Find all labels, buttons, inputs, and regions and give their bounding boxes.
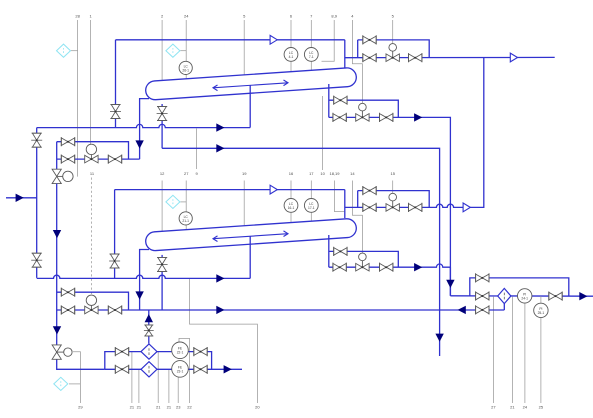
signal line tag 29 [73, 352, 80, 403]
pipe E1 bypass riser [115, 40, 117, 128]
signal line tag 23 [177, 377, 179, 403]
level controller LC 7-1 [304, 48, 318, 62]
signal line tag 21e [511, 297, 513, 403]
pipe unit1 overhead [116, 39, 345, 41]
strainer product [498, 288, 511, 303]
valve station L1 outlet [108, 155, 121, 164]
E2 internal flow arrow [213, 231, 288, 242]
valve station L2 inlet [61, 305, 74, 314]
svg-text:16-1: 16-1 [288, 206, 295, 210]
signal line tag 24 [185, 20, 187, 81]
svg-text:23: 23 [176, 405, 181, 410]
svg-text:7: 7 [310, 14, 313, 19]
flow arrow product line [510, 53, 517, 62]
signal line tag 21d [168, 369, 170, 403]
signal line tag 6 [290, 20, 292, 72]
pressure indicator PI 25-1 [534, 303, 548, 317]
signal line tag 28 [77, 20, 79, 177]
svg-text:7-1: 7-1 [309, 55, 314, 59]
valve unit1 feed [31, 133, 42, 147]
flow arrow strainer vent [145, 314, 153, 322]
flow arrow meter outlet [224, 365, 232, 373]
pipe meter bottom run [105, 368, 242, 370]
svg-text:6: 6 [290, 14, 293, 19]
pipe E1 head drain [140, 99, 149, 160]
signal line tag 24b [524, 303, 526, 403]
pipe unit2 overhead [115, 189, 345, 191]
svg-text:25: 25 [539, 405, 544, 410]
heat exchanger E1 [145, 67, 357, 100]
valve station B1 bypass [334, 96, 347, 105]
level controller LC 26-1 [179, 61, 192, 74]
flow arrow unit1 overhead [270, 35, 277, 44]
svg-text:21: 21 [156, 405, 161, 410]
valve unit2 feed [31, 253, 42, 267]
flow arrow drain header [435, 334, 443, 342]
svg-text:24-1: 24-1 [521, 296, 528, 300]
function block F4 [54, 377, 68, 390]
signal line tag 8,9 [322, 20, 335, 61]
signal line tag 2 [161, 20, 163, 82]
pipe E2 shell outlet riser [344, 190, 346, 219]
valve product bypass [476, 273, 489, 282]
valve E1 bypass [110, 105, 121, 119]
svg-text:23-1: 23-1 [177, 369, 184, 373]
svg-text:29: 29 [78, 405, 83, 410]
svg-text:18,19: 18,19 [329, 171, 340, 176]
signal line tag 5b [392, 20, 394, 44]
svg-text:10: 10 [320, 171, 325, 176]
valve meter top inlet [115, 347, 128, 356]
flow meter FE 23-1 [172, 361, 189, 378]
pipe E1 shell inlet [37, 124, 251, 127]
svg-text:27: 27 [184, 171, 189, 176]
signal line tag 9 [196, 129, 198, 170]
valve E2 bottom nozzle [157, 257, 168, 271]
pipe E1 bottoms header [162, 148, 440, 309]
pipe station A1 bypass [358, 40, 430, 58]
signal line tag 20 [190, 278, 258, 403]
signal line tag 12 [161, 181, 163, 233]
flow arrow letdown [53, 230, 61, 238]
pipe station B1 main [329, 117, 451, 295]
heat exchanger E2 [145, 218, 357, 251]
svg-text:11: 11 [90, 171, 95, 176]
signal line tag 25b [540, 318, 542, 403]
svg-text:21: 21 [137, 405, 142, 410]
level controller LC 21-1 [179, 212, 192, 225]
pipe E2 bottom nozzle [161, 255, 163, 310]
valve station B2 inlet [333, 263, 346, 272]
valve station L1 bypass [61, 137, 74, 146]
level controller LC 17-1 [304, 199, 318, 213]
valve station A1 outlet [409, 53, 422, 62]
flow arrow station A2 outlet [463, 203, 470, 212]
pipe station L1 drop [56, 142, 58, 170]
svg-text:17: 17 [309, 171, 314, 176]
valve E1 bottom nozzle [157, 107, 168, 121]
valve station B1 outlet [380, 113, 393, 122]
svg-text:27: 27 [491, 405, 496, 410]
flow meter FE 22-1 [172, 342, 189, 359]
pipe E2 head drain [140, 250, 149, 310]
strainer bottom [141, 362, 157, 377]
valve product meter outlet [549, 292, 562, 301]
control valve station B2 [356, 253, 369, 271]
flow arrow station B2 outlet [414, 263, 422, 271]
pipe E1 tube stub [249, 85, 251, 127]
feed header vertical [36, 128, 38, 278]
svg-text:21: 21 [130, 405, 135, 410]
pipe station A2 to header [463, 58, 484, 208]
signal line tag 17 [310, 181, 312, 222]
flow arrow unit2 overhead [270, 185, 277, 194]
svg-text:28: 28 [75, 14, 80, 19]
flow arrow combined outlet [446, 280, 454, 288]
valve station A1 bypass [363, 35, 376, 44]
signal stub diamond A2 [180, 50, 186, 52]
svg-text:17-1: 17-1 [308, 206, 315, 210]
signal line tag 21a [131, 352, 133, 403]
pipe drain collector [57, 309, 505, 311]
svg-text:16: 16 [289, 171, 294, 176]
pressure indicator PI 24-1 [518, 289, 532, 303]
svg-text:21: 21 [510, 405, 515, 410]
svg-text:4-1: 4-1 [289, 55, 294, 59]
svg-text:9: 9 [195, 171, 198, 176]
flow arrow E2 head drain [135, 291, 143, 299]
valve station A2 inlet [363, 203, 376, 212]
signal line tag 10 [322, 96, 324, 170]
signal line tag 21c [157, 352, 159, 403]
pipe E2 shell inlet [37, 275, 251, 278]
letdown valve unit1 [52, 169, 73, 183]
pipe letdown header [56, 184, 58, 345]
svg-text:1: 1 [89, 14, 92, 19]
svg-text:22-1: 22-1 [177, 351, 184, 355]
flow arrow station B1 outlet [414, 113, 422, 121]
pipe E1 tube outlet [328, 84, 330, 117]
valve meter top outlet [194, 347, 207, 356]
svg-text:2: 2 [161, 14, 164, 19]
pipe E2 tube outlet [328, 235, 330, 267]
svg-text:8,9: 8,9 [331, 14, 337, 19]
svg-text:5: 5 [243, 14, 246, 19]
pipe station L1 bypass [57, 142, 129, 159]
flow arrow E2 inlet [216, 274, 224, 282]
flow arrow drain return [458, 306, 466, 314]
signal line tag 19 [243, 181, 245, 228]
pipe E2 bypass riser [114, 190, 116, 279]
pipe strainer drain [503, 304, 505, 310]
pipe drain header outlet [439, 310, 441, 356]
svg-text:20: 20 [255, 405, 260, 410]
E1 internal flow arrow [213, 80, 288, 91]
valve station B1 inlet [333, 113, 346, 122]
svg-text:4: 4 [351, 14, 354, 19]
signal line tag 4 [352, 20, 362, 104]
svg-text:24: 24 [523, 405, 528, 410]
signal line tag 16 [290, 181, 292, 223]
control valve station A2 [386, 193, 399, 211]
pipe station L2 bypass [57, 292, 129, 310]
valve station A1 inlet [363, 53, 376, 62]
signal stub diamond A1 [71, 50, 78, 52]
feed line inlet [6, 197, 37, 199]
pipe station A2 bypass [358, 191, 430, 208]
valve product meter inlet [476, 291, 489, 300]
signal line tag 11 (dashed) [90, 178, 92, 296]
strainer top [141, 344, 157, 359]
pipe station B2 main [329, 264, 451, 267]
svg-text:22: 22 [187, 405, 192, 410]
function block F1 [57, 44, 71, 57]
function block F3 [166, 195, 180, 208]
signal line tag 22 [179, 338, 190, 403]
pipe station B1 bypass [329, 100, 399, 117]
flow arrow product outlet [579, 292, 587, 300]
signal line tag 27b [492, 297, 494, 403]
pipe meter top run [105, 352, 212, 370]
pipe station A1 main [345, 56, 555, 58]
pipe meter inlet [57, 345, 105, 370]
flow arrow feed [16, 194, 24, 202]
valve station L1 inlet [61, 155, 74, 164]
valve station B2 outlet [380, 263, 393, 272]
signal line tag 14 [352, 181, 362, 255]
flow arrow E1 inlet [216, 123, 224, 131]
svg-text:21-1: 21-1 [182, 219, 189, 223]
svg-text:15: 15 [390, 171, 395, 176]
valve station B2 bypass [334, 247, 347, 256]
pipe product meter main [450, 295, 593, 297]
valve meter bottom outlet [194, 365, 207, 374]
svg-text:26-1: 26-1 [182, 68, 189, 72]
pipe station A2 main [345, 204, 463, 207]
flow arrow E1 head drain [135, 140, 143, 148]
svg-text:14: 14 [350, 171, 355, 176]
signal line tag 7 [310, 20, 312, 70]
signal line tag 1 [90, 20, 92, 144]
valve strainer vent [144, 325, 154, 336]
svg-text:19: 19 [242, 171, 247, 176]
control valve station L1 [85, 144, 98, 163]
pipe E1 shell outlet riser [344, 40, 346, 68]
svg-text:21: 21 [167, 405, 172, 410]
flow arrow E1 bottoms [216, 144, 224, 152]
signal line tag 21b [138, 369, 140, 403]
valve station L2 bypass [61, 288, 74, 297]
svg-text:25-1: 25-1 [538, 311, 545, 315]
pipe station B2 bypass [329, 251, 399, 267]
flow arrow drain collector [216, 306, 224, 314]
pipe E2 tube stub [249, 236, 251, 278]
valve meter bottom inlet [115, 365, 128, 374]
signal line tag 15 [392, 181, 394, 194]
valve drain return [476, 305, 489, 314]
signal line tag 27 [185, 181, 187, 232]
signal stub diamond C [69, 383, 80, 385]
signal line tag 18,19 [335, 181, 345, 212]
valve station A2 bypass [363, 186, 376, 195]
level controller LC 16-1 [284, 199, 298, 213]
svg-text:5: 5 [392, 14, 395, 19]
valve E2 bypass [109, 254, 120, 268]
signal line tag 5 [243, 20, 245, 76]
valve station A2 outlet [409, 203, 422, 212]
signal stub diamond B2 [180, 201, 186, 203]
pipe product meter bypass [470, 278, 569, 296]
svg-text:24: 24 [184, 14, 189, 19]
pipe strainer vent [148, 310, 150, 344]
function block F2 [166, 44, 180, 57]
valve station L2 outlet [108, 305, 121, 314]
meter inlet valve [52, 345, 72, 359]
pipe station B2 junction [449, 267, 451, 296]
control valve station B1 [356, 103, 369, 121]
control valve station L2 [85, 295, 98, 314]
svg-text:12: 12 [160, 171, 165, 176]
level controller LC 4-1 [284, 48, 298, 62]
signal stub PI 25-1 [540, 296, 542, 303]
control valve station A1 [386, 44, 399, 62]
flow arrow letdown 2 [53, 326, 61, 334]
pipe station L1 main [57, 158, 140, 160]
pipe E1 bottom nozzle [161, 104, 163, 148]
